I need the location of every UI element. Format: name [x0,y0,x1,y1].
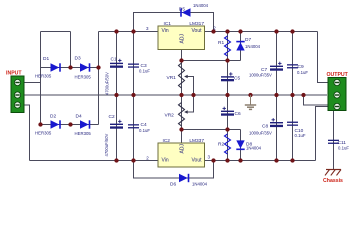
junction R2 / -V rail [225,158,229,162]
svg-text:Vout: Vout [191,158,202,164]
svg-text:C1: C1 [111,57,117,63]
svg-text:C5: C5 [234,75,240,81]
junction VR1 / ground rail [179,93,183,97]
svg-text:HER305: HER305 [35,73,52,78]
svg-text:D2: D2 [50,114,56,120]
diode D4 [75,114,92,137]
potentiometer VR1 [167,63,188,88]
svg-text:4700uF/50V: 4700uF/50V [104,133,109,156]
svg-text:D1: D1 [43,56,49,62]
wire bridge right vertical [98,32,100,125]
junction C7-C8 / ground rail [274,93,278,97]
capacitor C3 [128,63,150,74]
junction D6 loop / -V rail [211,158,215,162]
svg-text:0.1uF: 0.1uF [139,69,150,74]
wire ADJ2 node [182,130,241,144]
wire D6 bypass loop [134,161,214,179]
junction R1 / Vout rail [225,29,229,33]
wire VR1 wiper [186,77,194,96]
diode D2 [35,114,61,136]
svg-text:VR2: VR2 [165,112,175,118]
wire VR2 wiper [186,95,194,112]
capacitor C5 [221,72,240,81]
wire D5 bypass loop [134,13,214,32]
svg-text:C6: C6 [235,111,241,117]
junction D1-D3 node [68,65,72,69]
svg-text:0.1uF: 0.1uF [295,133,306,138]
wire R2 stub [227,130,229,161]
capacitor C1 [105,57,124,96]
svg-text:LM337: LM337 [189,138,204,144]
svg-text:R2: R2 [218,141,224,147]
wire input top terminal [23,82,41,84]
junction C3-D5 / +V rail [131,29,135,33]
diode D5 [179,3,209,17]
junction D2-D4 node [68,122,72,126]
op-amp U1 regulator IC1 LM317 [146,21,216,49]
capacitor C8 [249,118,283,136]
wire AC1 top link [41,31,71,33]
svg-text:HER305: HER305 [35,131,52,136]
capacitor C11 [328,140,349,151]
wire C3 branch [133,32,135,96]
wire VR2 stubs [181,95,183,130]
resistor R2 [218,134,231,154]
wire diode row 2 [41,124,99,126]
wire D7 branch [240,32,242,61]
junction C1 / ground rail [114,93,118,97]
svg-text:D5: D5 [179,7,185,13]
wire C8 branch [276,95,278,161]
wire C4 branch [133,95,135,161]
wire diode row 1 [41,67,99,69]
junction C3 / ground rail [131,93,135,97]
svg-text:1000uF/35V: 1000uF/35V [249,131,272,136]
potentiometer VR2 [165,103,188,127]
svg-text:ADJ: ADJ [179,144,185,154]
capacitor C7 [249,62,283,78]
svg-text:4700uF/50V: 4700uF/50V [105,72,110,95]
wire ground rail [23,94,327,96]
junction D2 anode node [38,122,42,126]
svg-text:IC2: IC2 [163,138,171,144]
junction C10 / -V rail [290,158,294,162]
wire left vertical bus [40,32,42,125]
wire C10 branch [292,95,294,161]
svg-text:D6: D6 [170,182,176,188]
wire C2 branch [116,95,118,161]
diode D1 [35,56,61,78]
wire output bottom terminal [316,107,329,161]
wire -V rail (Vout IC2 to output riser) [205,160,316,162]
svg-text:C2: C2 [109,114,115,120]
junction chassis branch / ground rail [301,93,305,97]
svg-text:1N4004: 1N4004 [246,145,262,150]
wire -V rail (input to Vin IC2) [30,160,159,162]
svg-text:1N4004: 1N4004 [245,44,261,49]
chassis ground [323,170,343,184]
junction C9 / Vout rail [290,29,294,33]
earth ground [245,95,256,109]
capacitor C4 [128,122,150,133]
diode D3 [75,56,92,80]
svg-text:HER305: HER305 [75,74,92,79]
junction C2 / -V rail [114,158,118,162]
input terminal block J1 [6,71,24,113]
wire chassis branch [304,95,334,170]
wire VR1 stubs [181,61,183,96]
junction ADJ1 node [179,58,183,62]
diode D6 [170,174,208,188]
junction D8 / -V rail [238,158,242,162]
svg-text:VR1: VR1 [167,75,177,81]
diode D8 [236,140,261,150]
svg-text:D7: D7 [245,37,251,43]
svg-text:IC1: IC1 [164,21,172,27]
capacitor C9 [287,64,308,75]
svg-text:Vout: Vout [191,28,202,34]
svg-text:0.1uF: 0.1uF [297,70,308,75]
junction C8 / -V rail [274,158,278,162]
svg-text:INPUT: INPUT [6,71,22,77]
wire ADJ1 node [182,50,241,61]
junction C1 / +V rail [114,29,118,33]
wire C1 branch [116,32,118,96]
svg-text:D4: D4 [76,114,82,120]
junction earth / ground rail [248,93,252,97]
svg-text:0.1uF: 0.1uF [139,128,150,133]
junction ADJ2 node [179,127,183,131]
wire R1 stub [227,32,229,61]
junction D5 loop / Vout rail [211,29,215,33]
svg-text:0.1uF: 0.1uF [338,145,349,150]
wire +V top rail (bridge to Vin pin 3) [99,31,159,33]
capacitor C6 [221,107,241,117]
svg-text:1N4004: 1N4004 [193,3,209,8]
junction D7 / Vout rail [238,29,242,33]
wire input bottom terminal [23,105,30,161]
junction VR1 wiper / ground rail [191,93,195,97]
svg-text:Vin: Vin [162,158,169,164]
wire output top terminal [318,32,329,83]
wire +V rail (Vout pin 2 to output riser) [205,31,318,33]
junction R1-C5 / ADJ1 node [225,58,229,62]
svg-text:R1: R1 [218,40,224,46]
wire bridge mid riser [70,32,72,68]
svg-text:D3: D3 [75,56,81,62]
op-amp U2 regulator IC2 LM337 [146,138,210,167]
svg-text:1N4004: 1N4004 [192,182,208,187]
svg-text:HER305: HER305 [75,131,92,136]
resistor R1 [218,36,231,56]
wire C9 branch [292,32,294,96]
wire D8 branch [240,130,242,161]
svg-text:LM317: LM317 [189,21,204,27]
svg-text:C8: C8 [262,123,268,129]
junction C9-C10 / ground rail [290,93,294,97]
capacitor C10 [287,122,306,138]
capacitor C2 [104,114,123,156]
junction C7 / Vout rail [274,29,278,33]
wire C7 branch [276,32,278,96]
svg-text:Vin: Vin [162,28,169,34]
junction C5-C6 / ground rail [225,93,229,97]
output terminal block J2 [327,72,349,110]
diode D7 [236,37,260,50]
junction C4-D6 / -V rail [131,158,135,162]
svg-text:ADJ: ADJ [179,34,185,44]
junction R2-C6 / ADJ2 node [225,127,229,131]
svg-text:Chassis: Chassis [323,178,343,184]
junction D3 cathode node [96,65,100,69]
svg-text:1000uF/35V: 1000uF/35V [249,73,272,78]
wire C6 branch [227,95,229,130]
wire C5 branch [227,61,229,96]
svg-text:OUTPUT: OUTPUT [327,72,349,78]
